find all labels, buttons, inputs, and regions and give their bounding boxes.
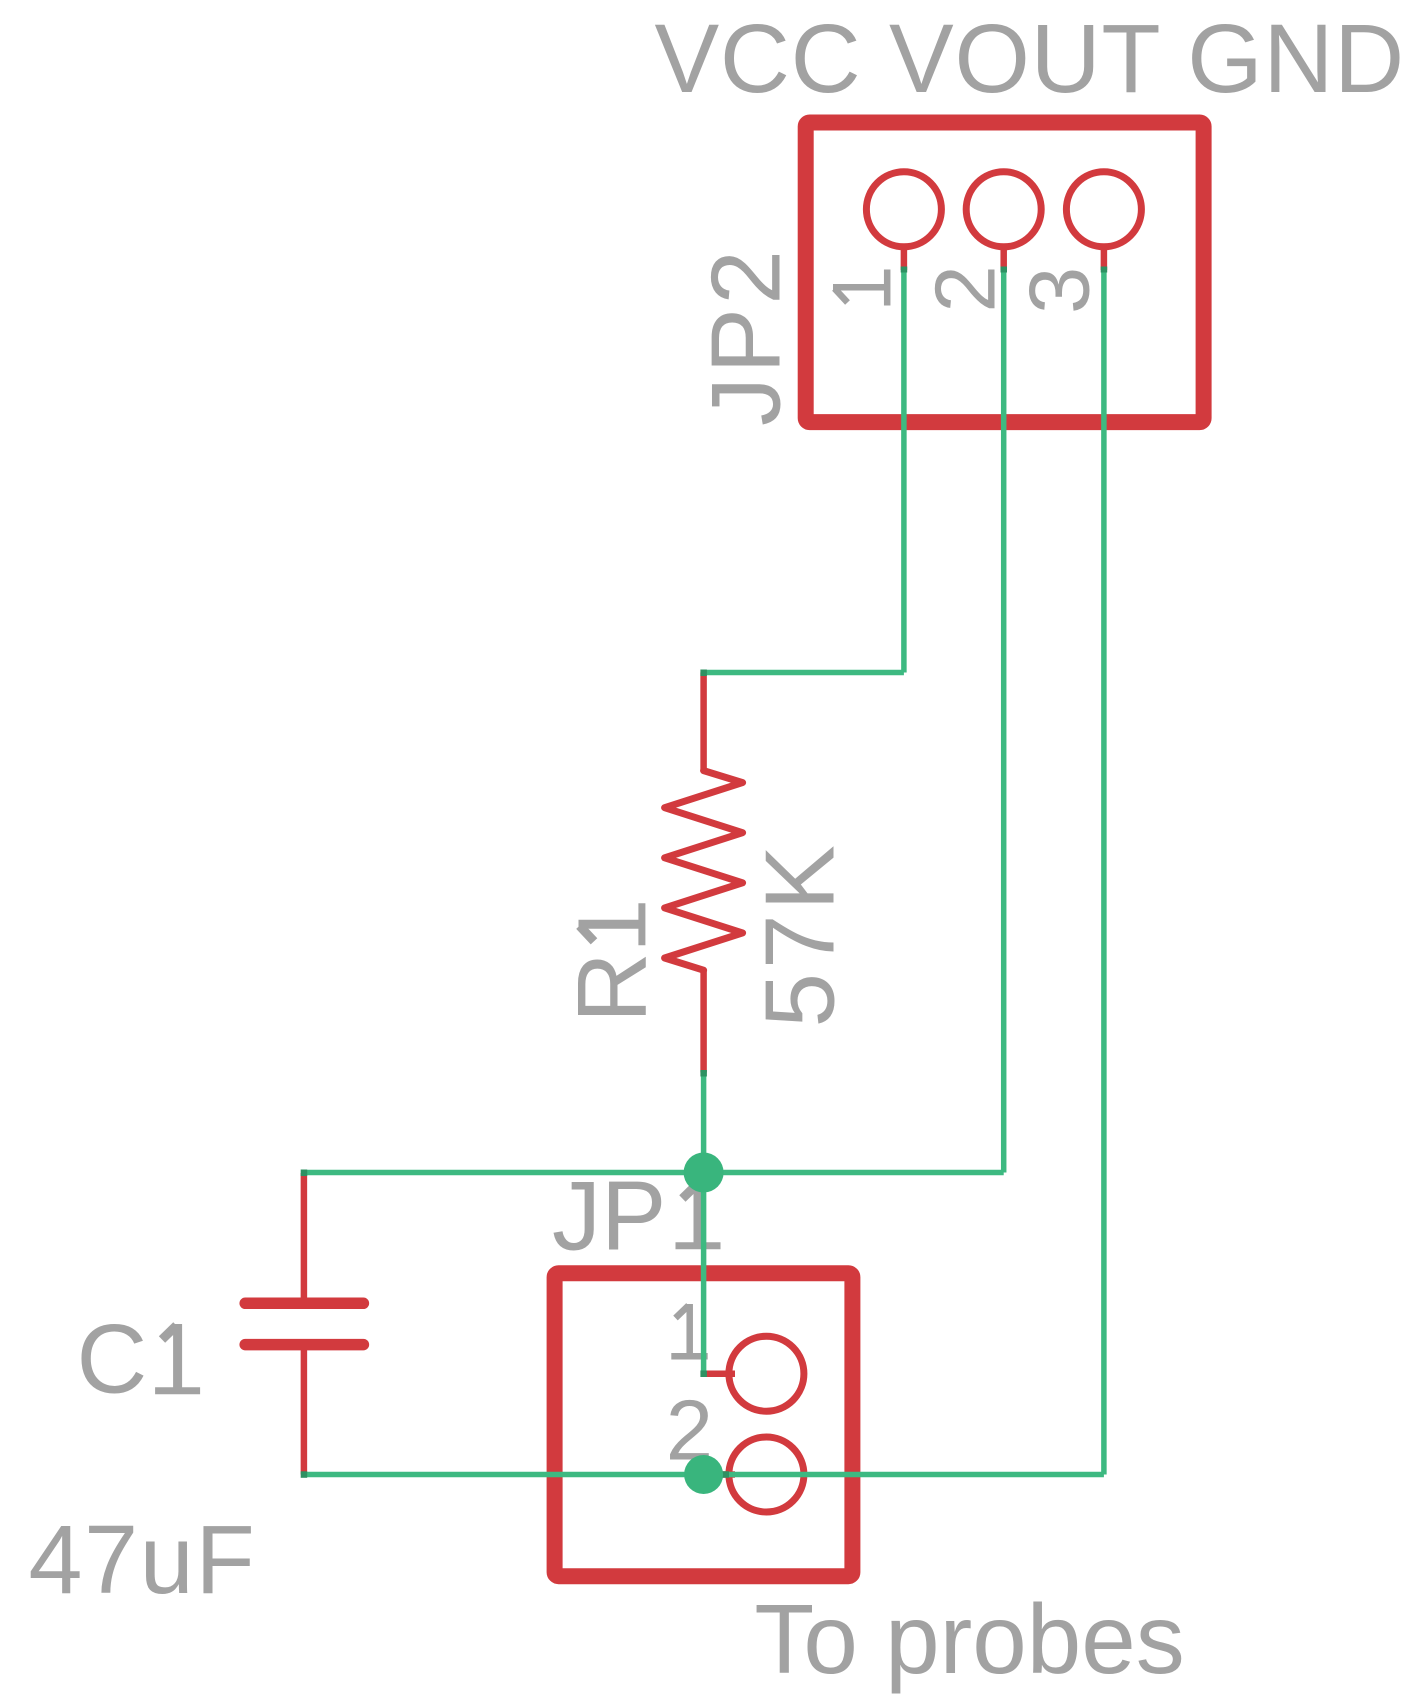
wire net GND vertical from JP2 pin 3 xyxy=(1101,270,1107,1475)
wire R1 bottom to JP1 pin 1 xyxy=(701,1072,707,1373)
capacitor C1 bottom plate xyxy=(245,1339,363,1351)
junction dot at R1/VOUT node xyxy=(684,1153,724,1193)
svg-text:R: R xyxy=(557,952,667,1023)
JP1 pin 1 lead xyxy=(702,1370,736,1377)
JP2 pin 2 stub xyxy=(1000,246,1007,270)
svg-text:To probes: To probes xyxy=(754,1584,1184,1694)
overlap cap JP2 pin3 xyxy=(1101,267,1108,273)
JP2 pin 1 stub xyxy=(901,246,908,270)
overlap cap JP2 pin2 xyxy=(1001,267,1008,273)
wire net VCC horizontal to R1 xyxy=(704,670,904,676)
overlap cap R1 top xyxy=(700,670,707,677)
overlap JP1 pin2 lead under wire xyxy=(704,1471,729,1478)
overlap JP1 pin1 corner xyxy=(700,1371,707,1378)
JP2 pad circle 3 xyxy=(1066,172,1141,247)
JP2 pad circle 1 xyxy=(866,172,941,247)
svg-text:47uF: 47uF xyxy=(29,1505,257,1614)
overlap cap C1 top xyxy=(301,1170,308,1177)
JP1 pin number 1 (custom) xyxy=(671,1304,707,1357)
svg-text:JP: JP xyxy=(552,1160,666,1270)
overlap cap R1 bottom xyxy=(700,1070,707,1077)
junction dot at JP1 pin 2 xyxy=(684,1455,723,1494)
svg-text:3: 3 xyxy=(1013,267,1108,314)
JP1 label digit 1 (custom) xyxy=(676,1183,721,1248)
connector JP2 body xyxy=(806,123,1204,423)
svg-text:JP2: JP2 xyxy=(690,247,800,426)
svg-text:2: 2 xyxy=(918,265,1013,312)
JP2 pad circle 2 xyxy=(966,172,1041,247)
svg-text:VCC VOUT GND: VCC VOUT GND xyxy=(655,4,1405,113)
wire net VOUT horizontal (C1 top to JP2 pin2) xyxy=(304,1170,1004,1176)
JP1 pad circle 2 xyxy=(729,1437,804,1512)
resistor R1 top lead xyxy=(700,673,707,771)
JP2 pin 3 stub xyxy=(1101,246,1108,270)
resistor R1 zigzag xyxy=(665,771,743,971)
capacitor C1 bottom lead xyxy=(301,1345,308,1475)
wire net VOUT vertical from JP2 pin 2 xyxy=(1001,270,1007,1173)
capacitor C1 top lead xyxy=(301,1173,308,1303)
JP1 pad circle 1 xyxy=(729,1336,804,1411)
connector JP1 body xyxy=(555,1273,853,1576)
JP1 pin 2 lead xyxy=(704,1471,735,1478)
JP2 pin number 1 (vector-font style, rotated) xyxy=(833,270,888,306)
overlap cap JP2 pin1 xyxy=(901,267,908,273)
R1 digit 1 (custom, rotated) xyxy=(579,903,643,945)
resistor R1 bottom lead xyxy=(700,970,707,1072)
overlap cap C1 bottom xyxy=(301,1471,308,1478)
C1 digit 1 (custom) xyxy=(155,1324,200,1391)
capacitor C1 top plate xyxy=(245,1298,363,1310)
svg-text:C: C xyxy=(77,1304,148,1414)
wire net VCC vertical from JP2 pin 1 xyxy=(901,270,907,673)
svg-text:57K: 57K xyxy=(745,841,855,1027)
wire net GND horizontal bottom xyxy=(304,1472,1104,1478)
